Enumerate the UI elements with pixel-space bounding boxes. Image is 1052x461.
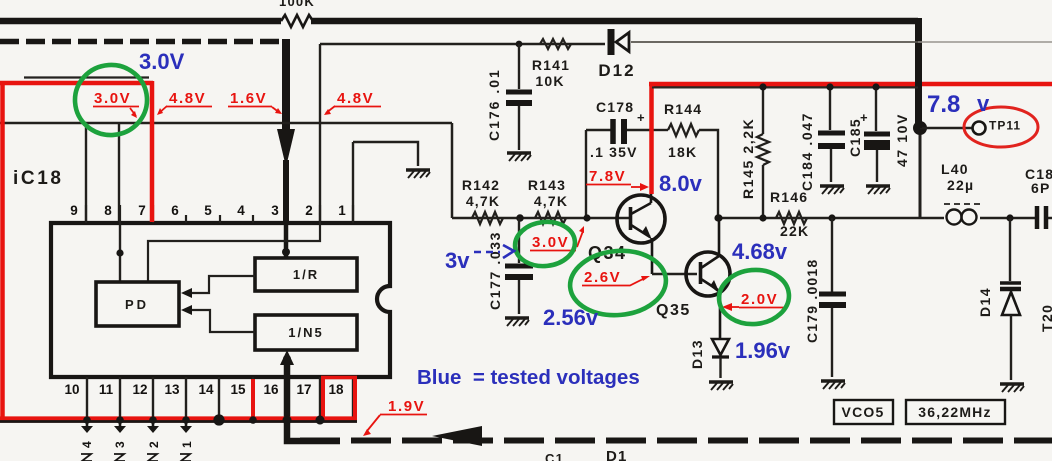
svg-text:3v: 3v [445,248,470,273]
svg-text:+: + [860,110,869,125]
bus black core under red [0,419,357,422]
svg-text:R145 2,2K: R145 2,2K [740,118,756,199]
arrowhead down on pin3 feed [277,129,295,167]
svg-text:4,7K: 4,7K [534,193,568,209]
svg-text:R141: R141 [532,57,570,73]
svg-text:+: + [637,110,646,125]
capacitor C18x at edge [1025,166,1052,229]
wire: 1/NS to PD with arrow [186,310,255,332]
wire: y86 core over red right of corner [652,87,918,89]
svg-text:6: 6 [171,203,179,218]
red vertical pin7 [150,81,155,222]
svg-text:4.8V: 4.8V [337,90,374,107]
wire: thick vertical into pin 3 [282,39,290,130]
svg-text:3.0V: 3.0V [532,234,569,251]
IC body [51,223,390,377]
svg-text:7.8: 7.8 [927,91,960,118]
svg-text:2.56v: 2.56v [543,305,599,330]
wire: faint line right of D12 [631,41,918,43]
wire: horizontal y218 [452,217,1052,220]
wire: vertical from big dot down to L40 rail [919,126,922,218]
svg-text:iC18: iC18 [13,168,64,189]
svg-text:C176 .01: C176 .01 [486,68,502,141]
node: dots on y86 [759,82,766,89]
svg-text:4,7K: 4,7K [466,193,500,209]
wire: pin3 feed below arrow [283,160,289,222]
svg-text:3.0V: 3.0V [139,49,185,74]
svg-text:TP11: TP11 [989,119,1021,133]
svg-text:11: 11 [99,382,114,397]
svg-text:16: 16 [263,382,279,397]
svg-text:5: 5 [204,203,212,218]
pin ticks top [86,205,353,223]
svg-text:1: 1 [338,203,346,218]
svg-text:15: 15 [230,382,246,397]
diode D14 varactor [977,218,1021,380]
svg-text:C1: C1 [545,451,564,461]
pin8 internal wire to PD [119,223,121,282]
svg-text:2.0V: 2.0V [741,291,778,308]
svg-text:1/N5: 1/N5 [288,325,323,340]
ground in pin1 loop [406,170,430,178]
resistor R146 [770,189,809,239]
capacitor C176 [486,44,532,150]
1/NS box [255,315,357,350]
svg-text:8: 8 [104,203,112,218]
pin separator lines bottom [87,377,353,420]
wire: vertical x452 joining y123 to y218 [451,123,454,218]
ground for C177 [505,318,529,326]
svg-text:10: 10 [64,382,79,397]
svg-text:4.68v: 4.68v [732,239,788,264]
wire: black core y86 [652,85,920,88]
svg-text:C177 .033: C177 .033 [487,231,503,310]
ground for C179 [821,381,845,389]
svg-text:7: 7 [138,203,146,218]
svg-text:D13: D13 [689,339,705,369]
svg-text:3: 3 [271,203,279,218]
svg-text:22K: 22K [780,223,809,239]
svg-text:VCO5: VCO5 [842,404,885,420]
svg-text:14: 14 [198,382,214,397]
svg-text:D12: D12 [598,61,635,80]
svg-text:Blue = tested voltages: Blue = tested voltages [417,366,640,389]
svg-text:47 10V: 47 10V [894,113,910,167]
node: dot Q35 collector top [715,214,722,221]
svg-text:4: 4 [80,441,94,448]
arrow left on dashed line [432,426,482,446]
svg-text:2.6V: 2.6V [584,269,621,286]
svg-text:C184 .047: C184 .047 [799,112,815,191]
node: big dot [913,121,927,135]
svg-text:9: 9 [70,203,78,218]
wire: horizontal thin y44 from pin2 corner to D12 [320,43,605,45]
svg-text:T20: T20 [1039,304,1052,332]
node: rail dots over red [759,83,766,90]
svg-text:6P: 6P [1031,180,1051,196]
ground for D14 [1000,384,1024,392]
svg-text:18: 18 [328,382,344,397]
wire: thick dashed bottom line [300,438,1052,444]
resistor R143 [535,212,566,224]
svg-text:10K: 10K [535,73,564,89]
test point TP11 [973,122,986,135]
box 36,22MHz [906,400,1005,424]
black box edge under red [24,76,149,78]
pin2 internal wire to PD [148,223,320,282]
node: junction dot C176 top [516,41,523,48]
svg-text:C179 .0018: C179 .0018 [804,259,820,343]
svg-text:3.0V: 3.0V [94,90,131,107]
red pin cell highlights [251,379,255,418]
svg-text:R144: R144 [664,101,702,117]
ground for C184 [820,186,844,194]
capacitor C178 [586,99,652,160]
red bus bottom [0,416,357,422]
red vertical Q34 collector [649,84,654,194]
ground for C176 [507,153,531,161]
red rail y84 [649,82,1052,87]
wire: pin2 vertical [319,44,321,222]
PD box [96,282,179,326]
wire: Q34 emitter to Q35 base [652,273,697,275]
svg-text:4: 4 [237,203,245,218]
diode D12 [611,29,629,55]
svg-text:17: 17 [296,382,311,397]
node: dot R145 bottom [759,214,766,221]
svg-text:1.6V: 1.6V [230,90,267,107]
wire: bus black core over red [0,420,357,423]
ground for C185 [866,186,890,194]
wire: pin1 loop to ground [353,142,418,166]
svg-text:.1 35V: .1 35V [590,144,638,160]
resistor R 100K (zigzag) [281,15,313,27]
node: dot on pin16 feed [283,355,291,363]
resistor R142 [472,212,503,224]
svg-text:18K: 18K [668,144,697,160]
pins 10-13 external leads with arrows [81,420,192,433]
svg-text:D14: D14 [977,287,993,317]
svg-text:22µ: 22µ [947,177,974,193]
red box top edge [0,81,153,86]
wire: thick vertical drop at right [915,18,922,126]
svg-text:7.8V: 7.8V [589,168,626,185]
box VCO5 [834,400,893,424]
node: dot R144 bottom [714,214,721,221]
wire: thick top rail left of R [0,18,281,25]
pin16 thick feed with up arrow into 1/NS [287,364,340,441]
svg-text:1.9V: 1.9V [388,398,425,415]
1/R box [255,258,357,291]
capacitor C177 [487,218,533,314]
wire: horizontal y123 [0,122,452,125]
svg-text:1.96v: 1.96v [735,338,791,363]
svg-text:R143: R143 [528,177,566,193]
wire: thick top rail right of R to corner [311,18,918,25]
wire: 1/R to PD with arrow [186,276,255,293]
capacitor C184 [799,86,845,191]
node: bus junction dots over red [83,414,324,425]
svg-text:R146: R146 [770,189,808,205]
svg-text:Q35: Q35 [656,302,691,319]
svg-text:8.0v: 8.0v [659,171,703,196]
node: dot R142/R143 junction [516,214,524,222]
svg-text:2: 2 [305,203,313,218]
wire: pin9 vertical [85,123,87,222]
svg-text:D1: D1 [606,448,628,461]
node: bus junction dots [83,416,90,423]
node: dot at 1/R top [282,248,290,256]
wire: C178 left leg [585,130,587,218]
svg-text:1/R: 1/R [293,267,319,282]
node: dot at D14 top [1006,214,1013,221]
svg-text:4.8V: 4.8V [169,90,206,107]
svg-text:v: v [977,91,990,116]
inductor L40 [941,161,982,225]
diode D13 [689,339,729,378]
svg-text:36,22MHz: 36,22MHz [918,404,991,420]
ground for D13 [709,382,733,390]
svg-text:3: 3 [113,441,127,448]
svg-text:13: 13 [164,382,180,397]
svg-text:C178: C178 [596,99,634,115]
resistor R144 [652,101,718,218]
wire: thick vertical over red rail [915,80,922,128]
red ellipse around TP11 [964,107,1038,147]
svg-text:1: 1 [180,441,194,448]
svg-text:L40: L40 [941,161,969,177]
node: dot on pin8 internal [116,249,123,256]
wire: to TP11 [920,127,972,129]
svg-text:PD: PD [125,297,149,312]
off-page zig glyphs [81,454,191,461]
wire: thick dashed bus [0,39,284,45]
resistor R145 vertical [740,86,769,218]
svg-text:100K: 100K [279,0,315,9]
resistor R141 zigzag [540,39,571,49]
svg-text:R142: R142 [462,177,500,193]
svg-text:12: 12 [132,382,147,397]
capacitor C185 electrolytic [847,86,910,182]
wire: pin1 vertical [352,142,354,222]
pin3 internal thick wire to 1/R [284,222,289,259]
svg-text:2: 2 [147,441,161,448]
capacitor C179 [804,214,846,377]
wire: pin8 vertical [118,123,120,222]
red left edge vertical [0,81,5,420]
